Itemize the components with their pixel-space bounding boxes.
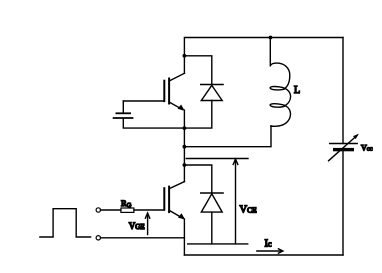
svg-text:L: L: [294, 85, 300, 96]
wire: upper diode top branch: [184, 56, 211, 85]
svg-text:Ic: Ic: [265, 239, 273, 250]
junction node: inductor return tap: [183, 145, 187, 149]
svg-text:Vcc: Vcc: [361, 143, 373, 152]
arrow VGE: [145, 213, 149, 235]
battery: Q1 gate bias source: [114, 113, 133, 118]
transistor Q1 (upper IGBT): [164, 73, 184, 110]
terminal: gate drive +: [96, 208, 100, 212]
measurement VCE: top reference bar: [186, 158, 248, 160]
junction node: top rail / inductor tap: [269, 36, 273, 40]
transistor Q2 (lower IGBT): [164, 182, 185, 220]
diode D2 (lower freewheel diode): [201, 193, 223, 212]
capacitor source Vcc (adjustable DC link): [329, 134, 359, 161]
terminal: gate drive -: [96, 236, 100, 240]
wire: right rail upper segment: [342, 38, 344, 144]
junction node: upper emitter: [183, 126, 187, 130]
svg-text:RG: RG: [121, 198, 132, 209]
wire: Q1 gate lead: [123, 100, 164, 102]
wire: return line terminal to emitter: [101, 237, 185, 239]
wire: lower diode top branch: [184, 165, 211, 193]
wire: right rail lower segment: [342, 151, 344, 255]
inductor L: [270, 38, 290, 127]
wire: Q2 gate lead: [134, 209, 164, 211]
diode D1 (upper freewheel diode): [201, 85, 223, 101]
pulse waveform (gate drive signal): [40, 209, 91, 237]
wire: upper diode bottom branch: [184, 101, 211, 129]
wire: top rail: [184, 38, 343, 74]
svg-text:VGE: VGE: [129, 221, 145, 231]
measurement VCE: vertical with up arrow: [233, 159, 238, 244]
junction node: lower collector / diode tap: [183, 163, 187, 167]
arrow IC: [257, 249, 283, 253]
wire: center vertical (upper emitter to lower collector): [183, 110, 185, 182]
measurement VCE: bottom reference bar: [188, 243, 248, 245]
resistor RG: [121, 208, 134, 212]
wire: Q2 emitter vertical: [183, 219, 185, 255]
wire: terminal to resistor: [101, 209, 121, 211]
wire: lower diode bottom branch: [211, 212, 213, 244]
svg-text:VCE: VCE: [240, 205, 258, 216]
junction node: upper collector / diode tap: [183, 54, 187, 58]
wire: inductor bottom return: [184, 126, 271, 147]
wire: battery top lead: [122, 101, 124, 113]
wire: battery bottom lead to emitter node: [123, 119, 184, 128]
wire: bottom rail: [184, 254, 343, 256]
